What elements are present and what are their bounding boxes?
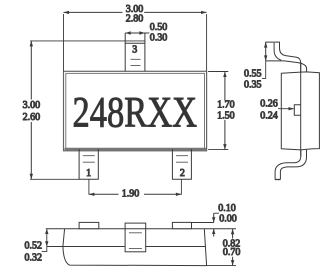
dimension 1.90 pin pitch (bottom): [89, 179, 181, 199]
top view package body inner outline: [66, 73, 205, 148]
dimension 0.26/0.24 lead thickness leader (side view): [260, 99, 294, 122]
dimension 1.70/1.50 body height (right): [208, 72, 235, 150]
front view pin 1 foot: [79, 222, 99, 228]
pin 2 lead bend lines: [176, 156, 188, 163]
pin 1 (bottom left lead): [79, 149, 98, 179]
dimension 3.00/2.80 overall width (top): [64, 4, 207, 71]
pin 1 lead bend lines: [83, 156, 95, 163]
svg-text:1: 1: [86, 168, 91, 179]
svg-text:1.50: 1.50: [217, 110, 235, 121]
side view bottom gull-wing lead (pin 2): [275, 150, 306, 180]
side view body outline: [281, 72, 319, 150]
svg-text:1.70: 1.70: [217, 100, 235, 111]
svg-text:0.70: 0.70: [223, 247, 241, 258]
dimension 0.82/0.70 body thickness (front view): [207, 229, 241, 266]
pin 2 (bottom right lead): [172, 149, 191, 179]
svg-text:0.32: 0.32: [25, 253, 43, 264]
front view pin 2 foot: [172, 222, 191, 228]
front view body top line: [46, 228, 236, 230]
svg-text:3.00: 3.00: [23, 100, 41, 111]
side view top gull-wing lead (pin 3): [266, 42, 307, 72]
svg-text:0.35: 0.35: [244, 80, 262, 91]
svg-text:0.10: 0.10: [218, 203, 236, 214]
svg-text:1.90: 1.90: [122, 188, 140, 199]
dimension 0.50/0.30 pin3 width: [125, 22, 167, 43]
dimension 0.10/0.00 standoff (front view): [192, 203, 237, 237]
svg-text:0.55: 0.55: [244, 68, 262, 79]
svg-text:248RXX: 248RXX: [73, 89, 198, 136]
dimension 3.00/2.60 overall height (left): [23, 41, 145, 179]
svg-text:2: 2: [180, 168, 185, 179]
dimension 0.55/0.35 lead foot (side view): [244, 42, 267, 91]
dimension 0.52/0.32 lead height (front view): [25, 229, 49, 264]
svg-text:0.52: 0.52: [25, 240, 43, 251]
front view pin 3 foot box: [125, 223, 146, 252]
front view body outline: [63, 229, 207, 266]
svg-text:0.30: 0.30: [150, 33, 168, 44]
side view lead center line: [300, 62, 302, 156]
svg-text:3: 3: [132, 45, 137, 56]
side view lead cross-section tab (0.26/0.24): [294, 105, 300, 116]
svg-text:2.80: 2.80: [126, 13, 144, 24]
front view seating line: [47, 246, 205, 248]
svg-text:0.26: 0.26: [260, 99, 278, 110]
svg-text:0.00: 0.00: [219, 214, 237, 225]
top view package body outer outline: [64, 71, 207, 151]
top view body bottom edge band: [65, 148, 207, 151]
svg-text:2.60: 2.60: [23, 112, 41, 123]
pin 3 (top lead): [125, 33, 145, 71]
pin 3 lead bend lines: [131, 59, 141, 65]
svg-text:0.24: 0.24: [260, 111, 278, 122]
